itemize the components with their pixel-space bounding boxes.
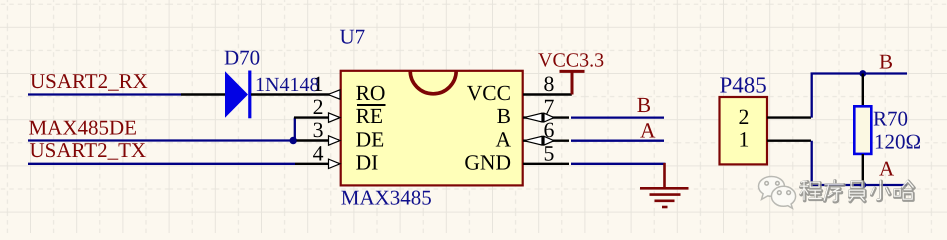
U7 pin 7 IO arrow xyxy=(524,113,554,123)
connector P485 body xyxy=(720,97,768,164)
svg-text:RO: RO xyxy=(356,81,386,105)
U7 pin 2 stub xyxy=(294,116,339,118)
U7 pin 2 in arrow xyxy=(329,113,341,122)
wire GND from pin 5 xyxy=(571,163,666,165)
svg-text:B: B xyxy=(637,93,651,117)
diode D70 cathode pin to U7 pin 1 xyxy=(251,93,339,95)
svg-text:5: 5 xyxy=(544,141,555,165)
svg-text:P485: P485 xyxy=(720,73,767,98)
junction dot on wire B xyxy=(859,70,866,77)
wire B from pin 7 xyxy=(571,116,664,118)
U7 pin 3 stub xyxy=(297,139,340,141)
resistor R70 body xyxy=(854,106,871,154)
ground symbol xyxy=(640,163,689,207)
wire A from pin 6 xyxy=(571,140,664,142)
svg-text:1: 1 xyxy=(313,72,324,96)
svg-text:3: 3 xyxy=(313,118,324,142)
U7 pin 5 stub xyxy=(523,163,569,165)
svg-text:DE: DE xyxy=(356,127,385,151)
svg-text:2: 2 xyxy=(739,105,750,129)
P485 pin 2 stub xyxy=(767,116,811,118)
U7 pin 3 in arrow xyxy=(329,136,341,145)
svg-text:MAX3485: MAX3485 xyxy=(341,186,432,210)
resistor R70 top pin xyxy=(862,74,864,108)
U7 pin 4 in arrow xyxy=(329,159,341,168)
wire RE riser to junction xyxy=(294,118,296,142)
U7 pin 6 stub xyxy=(523,139,569,141)
wire USART2_TX xyxy=(28,163,295,165)
junction dot on MAX485DE xyxy=(290,137,297,144)
junction dot on wire A xyxy=(859,182,866,189)
resistor R70 bottom pin xyxy=(862,154,864,185)
svg-text:USART2_RX: USART2_RX xyxy=(30,69,148,93)
U7 pin 6 IO arrow xyxy=(524,136,554,146)
svg-text:4: 4 xyxy=(313,141,324,165)
svg-text:U7: U7 xyxy=(340,25,366,49)
svg-text:B: B xyxy=(497,104,511,128)
svg-text:B: B xyxy=(879,50,893,74)
wire USART2_RX xyxy=(28,93,181,95)
svg-text:D70: D70 xyxy=(224,46,260,70)
svg-text:VCC: VCC xyxy=(467,81,511,105)
svg-text:A: A xyxy=(879,157,895,181)
svg-text:8: 8 xyxy=(544,72,555,96)
svg-text:RE: RE xyxy=(356,104,383,128)
power port VCC3.3 bar symbol xyxy=(560,71,585,94)
svg-text:A: A xyxy=(640,118,656,142)
svg-text:120Ω: 120Ω xyxy=(874,130,921,154)
svg-text:VCC3.3: VCC3.3 xyxy=(538,49,604,71)
wire A riser from P485 pin 1 xyxy=(812,141,907,185)
svg-text:GND: GND xyxy=(464,150,511,174)
wire MAX485DE xyxy=(28,139,294,141)
svg-text:USART2_TX: USART2_TX xyxy=(30,138,147,162)
wire B riser from P485 pin 2 xyxy=(812,74,907,118)
IC U7 body MAX3485 xyxy=(341,71,523,186)
svg-text:1: 1 xyxy=(739,128,750,152)
svg-text:1N4148: 1N4148 xyxy=(255,74,319,96)
U7 pin 8 stub xyxy=(523,93,572,95)
watermark logo and text xyxy=(759,177,914,209)
svg-text:R70: R70 xyxy=(873,107,908,131)
svg-text:DI: DI xyxy=(356,150,379,174)
U7 pin 7 stub xyxy=(523,116,569,118)
svg-text:A: A xyxy=(495,127,511,151)
diode D70 body xyxy=(225,71,248,118)
svg-text:MAX485DE: MAX485DE xyxy=(29,116,138,140)
diode D70 cathode bar xyxy=(248,71,251,119)
svg-text:2: 2 xyxy=(313,95,324,119)
U7 pin 4 stub xyxy=(295,163,339,165)
U7 notch arc xyxy=(410,71,456,94)
P485 pin 1 stub xyxy=(767,139,811,141)
diode D70 anode pin xyxy=(181,93,226,95)
U7 pin 1 out arrow xyxy=(328,90,340,99)
